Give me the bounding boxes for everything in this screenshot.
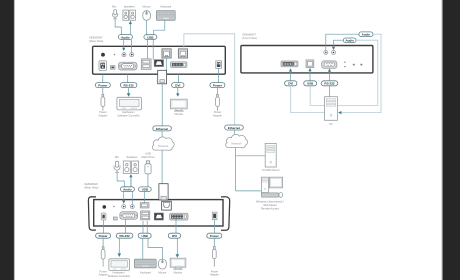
svg-text:PC: PC [329, 122, 333, 126]
wire+arrow: Audio pill up to speakers [129, 23, 131, 34]
wire: DB9 to RS-232 pill [127, 74, 129, 82]
monitor icon (receiver) [170, 258, 186, 269]
svg-text:Speakers: Speakers [124, 4, 136, 8]
svg-text:Audio: Audio [123, 188, 132, 192]
svg-text:Mic: Mic [115, 155, 120, 159]
receiver left ear [88, 197, 96, 230]
svg-text:Remote Access: Remote Access [261, 207, 280, 211]
svg-text:Software Controller: Software Controller [108, 274, 130, 278]
remote access workstation icon [261, 177, 282, 197]
svg-text:RS-232: RS-232 [324, 82, 335, 86]
receiver DC power jack [101, 213, 106, 220]
svg-text:Mouse: Mouse [143, 4, 151, 8]
pill Power (transmitter left) [95, 83, 110, 88]
svg-text:Power: Power [213, 84, 223, 88]
pill DVI (front) [285, 81, 297, 86]
svg-text:Adapter: Adapter [213, 114, 222, 118]
pill USB (receiver bottom) [138, 233, 151, 238]
front audio jack 2 [332, 50, 336, 54]
mouse icon (receiver) [159, 259, 167, 269]
wire: LAN1 down inside device [165, 58, 167, 70]
svg-text:DVI: DVI [175, 84, 180, 88]
svg-text:Speakers: Speakers [126, 155, 138, 159]
svg-text:Mouse: Mouse [159, 271, 167, 275]
receiver USB top port [140, 203, 149, 208]
wire: Ethernet pill 2 to cloud 2 [233, 130, 235, 135]
svg-text:Software Controller: Software Controller [117, 114, 139, 118]
wire+arrow: USB port to USB pill [309, 71, 311, 81]
svg-text:Adapter: Adapter [99, 273, 108, 277]
wire: Power pill to adapter (receiver right) [213, 238, 215, 247]
receiver USB stacked ports [141, 211, 150, 220]
svg-text:USB: USB [307, 82, 314, 86]
receiver power pushbutton [103, 205, 107, 209]
wire: USB stack to USB pill (receiver, two leads) [142, 221, 144, 233]
power inlet (left) [99, 61, 106, 71]
wire: Audio pill to jack2 (receiver) [131, 192, 133, 205]
wire: Audio pill upper loop to PC (arrow) [340, 34, 382, 112]
svg-text:Power: Power [98, 84, 108, 88]
RJ45 LAN port 1 (top row) [162, 49, 171, 58]
pill USB (transmitter top) [144, 35, 157, 40]
wire+arrow: Audio pill to jack1 (receiver) [123, 192, 125, 202]
svg-text:USB: USB [142, 234, 149, 238]
wire: Power pill 2 to adapter 2 [216, 88, 218, 96]
pill RS-232 (transmitter) [120, 83, 137, 88]
wire+arrow: Audio pill up to speakers (receiver) [130, 178, 132, 187]
svg-text:DVI: DVI [288, 82, 293, 86]
PC tower icon [325, 97, 338, 121]
svg-text:(Front View): (Front View) [242, 36, 257, 40]
wire+arrow: Audio pill lower to jack2 [334, 40, 344, 47]
power pushbutton [101, 53, 105, 57]
svg-text:Ethernet: Ethernet [156, 127, 168, 131]
svg-text:Keyboard: Keyboard [140, 271, 152, 275]
pill RS-232 (front) [321, 81, 338, 86]
front panel small dots [344, 62, 345, 63]
wire: Power pill to adapter 1 [102, 88, 104, 96]
wire+arrow: DVI port to DVI pill [290, 71, 292, 81]
grounding/mini port [110, 66, 115, 70]
wire: DC jack to Power pill (receiver) [102, 220, 104, 233]
keyboard icon (receiver) [134, 259, 156, 268]
power adapter icon (receiver left) [101, 247, 105, 267]
monitor icon (top) [171, 99, 188, 111]
receiver LAN trapezoid port [154, 213, 163, 220]
wire: power inlet to Power pill [102, 74, 104, 82]
wire: USB pill to PC left [310, 86, 324, 106]
device body: KE6900AiT front panel [241, 46, 373, 73]
DVI-I port (rear) [171, 62, 187, 68]
pill USB (receiver top) [139, 187, 152, 192]
svg-text:Network: Network [231, 142, 242, 146]
pill DVI (transmitter) [172, 83, 184, 88]
wire: RS-232 pill to PC top [329, 86, 331, 97]
receiver RJ45 LAN port [162, 201, 172, 210]
pill Power (receiver left) [96, 233, 111, 238]
pill Audio (receiver) [120, 187, 134, 192]
wire: mouse to USB pill [146, 21, 148, 35]
wire+arrow: RS-232 pill to controller (receiver) [118, 238, 120, 254]
keyboard icon (top) [156, 11, 175, 21]
device body: KE6900AiT rear panel [93, 46, 226, 74]
svg-text:USB: USB [145, 151, 151, 155]
pill Power (transmitter right) [210, 83, 225, 88]
wire: cloud 2 down [235, 148, 237, 191]
wire: USB pill to second port [152, 39, 154, 60]
USB flash drive icon [145, 161, 151, 174]
wire: USB pill to USB port [147, 39, 149, 58]
wire: Audio pill to jack2 [131, 39, 133, 52]
svg-text:CC2000 Server: CC2000 Server [262, 168, 280, 172]
LAN service port (trapezoid) [154, 60, 163, 67]
wire+arrow: DVI pill to monitor (receiver) [176, 238, 178, 255]
wire: flash drive to USB pill (receiver) [147, 174, 149, 187]
svg-text:DVI: DVI [172, 234, 177, 238]
front RS-232 DB9 [322, 61, 337, 68]
svg-text:RS-232: RS-232 [124, 84, 135, 88]
svg-text:(Rear View): (Rear View) [84, 186, 98, 190]
svg-text:Windows (Java-based) /: Windows (Java-based) / [256, 199, 284, 203]
svg-text:USB: USB [147, 35, 154, 39]
svg-text:RS-232: RS-232 [120, 234, 131, 238]
pill Ethernet 1 [153, 126, 172, 131]
svg-text:Adapter: Adapter [210, 273, 219, 277]
wire: mic to Audio pill [115, 19, 121, 35]
power socket (right end) [216, 61, 222, 69]
power adapter icon (receiver right) [212, 247, 216, 267]
svg-text:Monitor: Monitor [174, 271, 183, 275]
receiver audio jack 1 [122, 205, 126, 209]
audio jack 2 (rear) [130, 53, 134, 57]
wire+arrow: Audio pill to mic jack1 [123, 39, 125, 48]
receiver power socket [212, 212, 217, 219]
wire: Ethernet pill 1 to cloud 1 [161, 131, 163, 138]
ethernet cable plug into receiver [159, 184, 168, 200]
microphone icon (top) [113, 10, 118, 19]
pill DVI (receiver) [168, 233, 180, 238]
wire: LAN2 up and over to Ethernet pill 2 [184, 34, 235, 125]
receiver audio jack 2 [130, 205, 134, 209]
pill USB (front) [304, 81, 317, 86]
mouse icon (top) [143, 11, 151, 21]
receiver grounding port [113, 217, 117, 220]
svg-text:Network: Network [158, 144, 169, 148]
svg-text:Audio: Audio [121, 35, 130, 39]
svg-text:KE6900AiT: KE6900AiT [242, 32, 256, 36]
svg-text:Flash Drive: Flash Drive [141, 155, 155, 159]
right black sidebar [443, 0, 460, 280]
front audio jack 1 [324, 50, 328, 54]
pill RS-232 (receiver) [116, 233, 133, 238]
wire: keyboard to USB pill [154, 21, 165, 35]
svg-text:Web-based: Web-based [263, 203, 277, 207]
svg-text:KE6900AR: KE6900AR [84, 182, 97, 186]
wire: branch to CC2000 server [236, 155, 265, 157]
wire: DVI port to DVI pill [178, 74, 180, 82]
pill Audio upper [359, 32, 373, 37]
svg-text:Adapter: Adapter [98, 114, 107, 118]
wire: DVI pill to PC left [291, 86, 325, 113]
svg-text:Power: Power [99, 234, 109, 238]
power adapter icon 1 (top) [101, 94, 105, 111]
small LED dot [114, 54, 116, 56]
svg-text:Keyboard: Keyboard [160, 4, 172, 8]
network cloud 2 [226, 134, 248, 147]
receiver DVI-I port [170, 213, 188, 220]
svg-text:Monitor: Monitor [175, 112, 184, 116]
front USB port [306, 60, 314, 68]
hardware/software controller icon (top) [117, 97, 142, 110]
wire: USB pill to mouse [148, 238, 162, 259]
svg-text:USB: USB [142, 188, 149, 192]
wire: DB9 to RS-232 pill (receiver) [125, 220, 127, 234]
receiver face panel [94, 200, 223, 226]
pill Ethernet 2 [225, 125, 244, 130]
wire: USB pill to keyboard [142, 238, 144, 259]
wire: Power pill to adapter (receiver left) [102, 238, 104, 247]
RS-232 DB9 port (rear) [118, 62, 137, 70]
wire+arrow: DVI pill to monitor [177, 88, 179, 94]
wire: jack1 up to Audio pill upper [326, 34, 359, 50]
controller icon (receiver) [109, 259, 130, 271]
power adapter icon 2 (top) [216, 94, 220, 111]
svg-text:(Rear View): (Rear View) [89, 39, 103, 43]
front DVI-I port [281, 61, 298, 67]
audio jack 1 (rear) [122, 53, 126, 57]
network cloud 1 [152, 137, 174, 150]
svg-text:Audio: Audio [362, 33, 371, 37]
wire: Audio pill lower loop to PC [338, 40, 378, 105]
svg-text:Ethernet: Ethernet [228, 126, 240, 130]
left black sidebar [0, 0, 14, 280]
speakers icon (top) [123, 10, 136, 20]
svg-text:KE6900AiT: KE6900AiT [89, 36, 103, 40]
USB ports block (rear) [141, 59, 151, 70]
speakers icon (receiver) [123, 161, 138, 173]
svg-text:Power: Power [210, 234, 220, 238]
svg-text:Mic: Mic [112, 4, 117, 8]
pill Audio lower [343, 38, 356, 42]
microphone icon (receiver) [114, 161, 120, 172]
wire+arrow: DB9 to RS-232 pill [329, 71, 331, 81]
wire: cloud 1 down to receiver plug [161, 150, 163, 183]
RJ45 LAN port 2 (top row) [178, 49, 187, 58]
pill Power (receiver right) [207, 233, 222, 238]
wire: plug down to Ethernet pill 1 [161, 84, 163, 126]
receiver RS-232 DB9 [120, 212, 138, 220]
wire: USB pill to USB top port (receiver) [143, 192, 145, 203]
CC2000 server tower icon [265, 143, 276, 167]
wire+arrow: RS-232 pill to controller [128, 88, 130, 94]
wire: DVI to DVI pill (receiver) [175, 218, 177, 233]
ethernet cable plug below transmitter [158, 70, 167, 84]
wire: power socket to Power pill 2 [218, 68, 220, 82]
wire: branch to remote access workstation [236, 190, 262, 192]
wire: power socket to Power pill (receiver right) [213, 220, 215, 233]
pill Audio (transmitter top) [118, 35, 132, 40]
receiver LED dot [113, 206, 115, 208]
wire: mic to Audio pill (receiver) [117, 173, 124, 187]
svg-text:Audio: Audio [345, 39, 354, 43]
receiver right ear [221, 197, 230, 231]
